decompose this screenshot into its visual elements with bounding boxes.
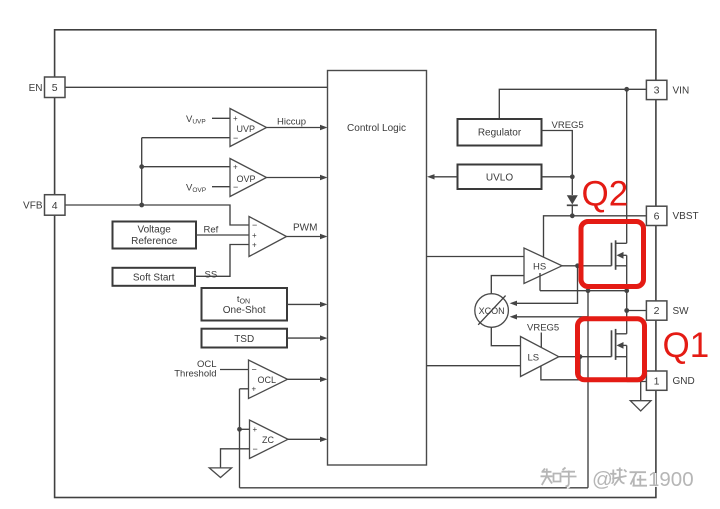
svg-text:VFB: VFB (23, 201, 43, 212)
pin 4 VFB (23, 195, 65, 216)
node junction ZC plus (237, 427, 242, 432)
wire XCON to LS upper input (491, 327, 520, 345)
svg-text:VREG5: VREG5 (552, 120, 584, 131)
comparator UVP (230, 109, 267, 147)
wire LS output to Q1 gate (559, 356, 612, 358)
transistor Q1 MOSFET (612, 329, 627, 382)
svg-text:One-Shot: One-Shot (223, 305, 266, 316)
svg-text:1900: 1900 (648, 468, 694, 491)
svg-text:PWM: PWM (293, 223, 317, 234)
Q1 source lead (626, 345, 628, 381)
svg-text:4: 4 (52, 200, 58, 212)
Q1 body arrow (621, 344, 627, 346)
svg-text:OVP: OVP (237, 174, 256, 184)
svg-text:@: @ (592, 468, 613, 491)
wire XCON lower input from SW sense (516, 316, 588, 318)
svg-text:SW: SW (673, 306, 690, 317)
wire SW horizontal Q2 source (540, 290, 627, 292)
node junction SW pin (624, 308, 629, 313)
svg-text:SS: SS (205, 270, 218, 281)
svg-text:EN: EN (29, 83, 43, 94)
svg-text:+: + (252, 385, 257, 394)
wire PWM output to Control Logic (287, 236, 321, 238)
svg-text:+: + (252, 231, 257, 240)
wire VUVP stub (212, 117, 230, 119)
svg-text:VBST: VBST (673, 211, 699, 222)
svg-text:Threshold: Threshold (174, 369, 216, 380)
comparator OCL (249, 360, 288, 399)
wire UVP output Hiccup to Control Logic (267, 127, 321, 129)
svg-text:Reference: Reference (131, 236, 178, 247)
wire VOVP stub (212, 186, 230, 188)
Q1 source stub (616, 356, 627, 358)
wire UVLO sense from VREG5 (542, 176, 573, 178)
block Control Logic (328, 71, 427, 466)
wire HS gate tap to XCON upper input (516, 266, 578, 304)
wire tON output to Control Logic (287, 303, 321, 305)
transistor Q2 MOSFET (612, 240, 627, 290)
wire OVP plus input (142, 166, 230, 168)
wire ZC plus input (240, 428, 250, 430)
watermark zhihu (541, 468, 695, 493)
node junction VIN / Q2 drain (624, 87, 629, 92)
block Regulator (458, 119, 542, 146)
node junction VREG5 / UVLO (570, 174, 575, 179)
wire VIN rail pin3 to Regulator (499, 89, 646, 119)
wire SW sense vertical (587, 291, 589, 488)
svg-text:LS: LS (528, 353, 540, 364)
wire OCL plus input (240, 388, 249, 390)
driver HS (524, 248, 562, 284)
wire OCL Threshold to OCL minus (220, 369, 249, 371)
wire LS reference loop (541, 357, 580, 380)
wire Q2 drain from VIN (626, 89, 628, 243)
svg-text:GND: GND (673, 376, 695, 387)
svg-text:+: + (233, 114, 238, 123)
svg-text:UVLO: UVLO (486, 173, 513, 184)
wire ground stem (640, 382, 642, 401)
svg-text:Ref: Ref (204, 225, 219, 236)
wire ZC minus to ground (221, 449, 250, 468)
wire VBST pin6 to HS driver top (544, 216, 647, 258)
wire XCON to HS lower input (491, 276, 524, 294)
svg-text:−: − (233, 133, 238, 143)
wire ZC output to Control Logic (288, 438, 321, 440)
comparator ZC (250, 420, 289, 459)
XCON block (475, 294, 509, 328)
svg-text:OCL: OCL (258, 375, 277, 385)
svg-text:+: + (253, 425, 258, 434)
node junction VFB/OVP (139, 164, 144, 169)
block tON One-Shot (202, 288, 288, 321)
svg-text:−: − (252, 365, 257, 375)
svg-text:Q2: Q2 (582, 175, 629, 214)
wire OCL output to Control Logic (288, 378, 321, 380)
Q2 source lead (626, 255, 628, 290)
block UVLO (458, 165, 542, 190)
block Soft Start (113, 268, 196, 286)
node junction diode / VBST line (570, 213, 575, 218)
svg-text:XCON: XCON (479, 306, 505, 316)
node junction LS gate tap (578, 354, 583, 359)
block Voltage Reference (113, 222, 197, 249)
wire TSD output to Control Logic (287, 337, 321, 339)
wire Ref to PWM plus input (196, 234, 249, 236)
driver LS (521, 337, 559, 377)
svg-text:Hiccup: Hiccup (277, 117, 306, 128)
wire HS output to Q2 gate (562, 265, 612, 267)
svg-text:5: 5 (52, 82, 58, 94)
svg-text:HS: HS (533, 261, 546, 272)
node junction HS gate tap (575, 263, 580, 268)
wire Control Logic to HS input (427, 256, 525, 258)
svg-text:ZC: ZC (262, 435, 274, 445)
wire sense vertical down from OCL plus (239, 389, 241, 488)
Q2 drain stub (616, 242, 627, 244)
wire UVP minus input (142, 137, 230, 139)
pin 1 GND (646, 371, 694, 390)
pin 3 VIN (646, 80, 689, 99)
svg-text:Control Logic: Control Logic (347, 123, 406, 134)
svg-text:Soft Start: Soft Start (133, 273, 175, 284)
ground symbol near ZC (209, 468, 231, 478)
node junction Q2 source (624, 288, 629, 293)
highlight box around Q2 (581, 222, 644, 287)
wire SW node vertical to Q1 drain (626, 291, 628, 334)
highlight box around Q1 (578, 319, 645, 380)
Q2 body arrow (621, 254, 627, 256)
wire VREG5 to LS top (540, 333, 542, 349)
svg-text:VIN: VIN (673, 85, 690, 96)
svg-text:2: 2 (654, 305, 660, 317)
Q1 channel bar (615, 329, 617, 360)
pin 2 SW (646, 301, 689, 320)
wire sense line along bottom (240, 487, 589, 489)
pin 6 VBST (646, 206, 698, 225)
wire GND line to pin1 (627, 381, 647, 383)
Q2 source stub (616, 265, 627, 267)
wire EN pin5 to Control Logic (65, 86, 328, 88)
diode D1 bootstrap (567, 195, 578, 216)
svg-text:−: − (253, 444, 258, 454)
svg-text:VREG5: VREG5 (527, 323, 559, 334)
node junction VFB line (139, 203, 144, 208)
svg-text:TSD: TSD (234, 334, 254, 345)
svg-text:UVP: UVP (237, 124, 256, 134)
wire SW node to pin2 (627, 310, 647, 312)
svg-text:Q1: Q1 (663, 326, 710, 365)
svg-text:+: + (252, 240, 257, 249)
wire HS reference to SW line (539, 273, 541, 291)
svg-text:1: 1 (654, 375, 660, 387)
wire Regulator output VREG5 (542, 131, 573, 196)
svg-text:Regulator: Regulator (478, 128, 522, 139)
Q2 channel bar (615, 240, 617, 269)
wire SS to PWM plus2 input (195, 245, 249, 277)
Q2 gate bar (611, 243, 613, 266)
block TSD (202, 329, 288, 348)
wire Control Logic to LS input (427, 365, 521, 367)
svg-text:Voltage: Voltage (138, 225, 172, 236)
comparator OVP (230, 159, 267, 197)
IC boundary box (55, 30, 656, 498)
wire OVP output to Control Logic (267, 177, 321, 179)
wire VFB branch vertical (141, 138, 143, 205)
pin 5 EN (29, 77, 65, 98)
Q1 drain stub (616, 333, 627, 335)
node junction SW sense (586, 288, 591, 293)
svg-text:+: + (233, 163, 238, 172)
ground symbol below GND pin (630, 401, 651, 411)
comparator PWM (249, 217, 287, 257)
svg-text:3: 3 (654, 85, 660, 97)
wire UVLO output to Control Logic (434, 176, 458, 178)
svg-text:6: 6 (654, 211, 660, 223)
svg-text:−: − (252, 220, 257, 230)
wire VFB pin4 to PWM minus input (65, 205, 249, 225)
Q1 gate bar (611, 330, 613, 356)
